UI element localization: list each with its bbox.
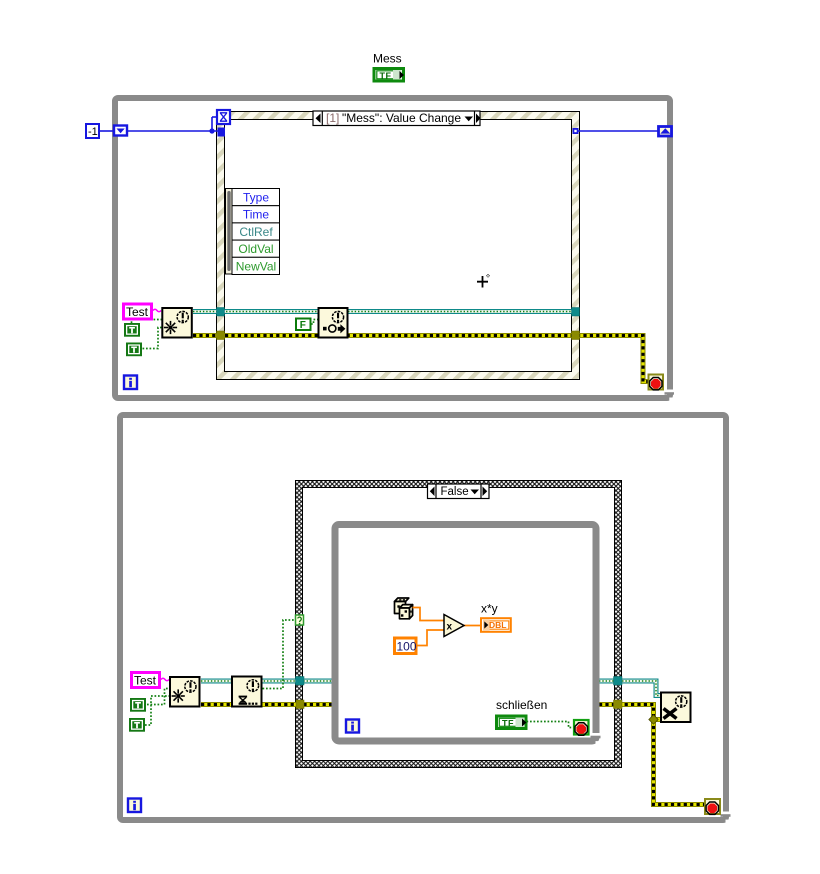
numeric constant 100 <box>395 638 417 654</box>
close ref node U5 (X + !) <box>661 693 691 723</box>
string constant Test (bottom) <box>132 673 160 688</box>
error wire (node1 to stop terminal) <box>193 336 649 382</box>
svg-text:[1]: [1] <box>326 111 339 125</box>
olive tunnel left on case border <box>296 700 304 709</box>
svg-text:"Mess": Value Change: "Mess": Value Change <box>342 111 461 125</box>
schliessen TF boolean terminal <box>497 716 527 729</box>
event data node <box>226 189 280 275</box>
boolean constant T1 (bottom loop) <box>130 698 146 712</box>
olive tunnel left on event border <box>217 331 225 340</box>
green dotted wire F to node2 <box>311 320 318 325</box>
green dotted wire from T1 (under Test) to node1 <box>132 320 162 324</box>
wait node U4 (hourglass + !) <box>232 677 262 707</box>
svg-text:100: 100 <box>397 640 417 654</box>
boolean constant T2 (bottom loop) <box>129 718 145 732</box>
shift register left (down arrow) <box>114 126 127 136</box>
while loop border (top) <box>115 98 674 401</box>
boolean constant T1 (top loop) <box>124 323 140 337</box>
error wire junction diamond <box>649 715 658 724</box>
small blue tunnel on event right border <box>573 128 579 134</box>
green dotted wire T2 to node1 (bottom) <box>145 696 169 725</box>
case selector label False <box>428 484 490 499</box>
svg-text:x: x <box>447 622 453 633</box>
svg-text:CtlRef: CtlRef <box>239 225 273 239</box>
svg-text:Time: Time <box>243 208 270 222</box>
Mess TF boolean terminal <box>374 69 404 82</box>
svg-text:TF: TF <box>380 71 392 81</box>
case structure border <box>296 481 622 768</box>
olive tunnel right on event border <box>572 331 580 340</box>
open ref node U3 (asterisk + !) bottom <box>170 677 200 707</box>
loop condition stop terminal (bottom loop) <box>705 799 720 814</box>
iteration terminal i (bottom loop) <box>128 799 141 813</box>
wire -1 to shift register <box>100 130 114 132</box>
iteration terminal i (top loop) <box>124 376 137 390</box>
teal tunnel left on event border <box>217 308 225 317</box>
pink string wire (bottom) <box>161 678 169 681</box>
wire teal hidden span under inner loop <box>333 681 599 705</box>
svg-text:DBL: DBL <box>489 620 506 630</box>
orange wire 100 to multiply <box>418 630 445 646</box>
svg-text:Test: Test <box>126 305 149 319</box>
numeric constant -1 <box>86 124 99 138</box>
orange wire dice to multiply <box>413 608 445 621</box>
event selector label <box>313 111 481 126</box>
green dotted wire T1 to node1 (bottom) <box>147 689 169 705</box>
DBL indicator x*y <box>481 618 511 632</box>
error wire (node1 through case to close node and stop) <box>201 705 705 805</box>
svg-text:Test: Test <box>134 674 157 688</box>
teal tunnel right on event border <box>572 308 580 317</box>
teal tunnel left on case border <box>296 677 305 686</box>
run method node U2 (!) <box>319 308 348 338</box>
svg-text:OldVal: OldVal <box>238 242 273 256</box>
loop condition stop terminal (top loop) <box>649 375 664 390</box>
svg-text:Mess: Mess <box>373 52 402 66</box>
teal refnum wire (node1 to right tunnel) <box>193 309 572 314</box>
green dotted wire TF to inner stop <box>527 722 574 728</box>
event timeout terminal (hourglass) <box>217 110 230 124</box>
while loop border (bottom) <box>120 415 731 823</box>
wire shift register to timeout <box>127 117 218 134</box>
string constant Test (top) <box>124 304 152 319</box>
F boolean constant <box>296 319 311 332</box>
svg-text:x*y: x*y <box>481 602 498 616</box>
inner loop stop terminal <box>574 720 589 735</box>
case selector terminal ? <box>296 615 304 625</box>
boolean constant T2 (top loop) <box>126 343 142 357</box>
open ref node U1 (asterisk + !) <box>162 308 192 338</box>
green dotted wire T2 to node1 <box>143 328 162 349</box>
orange wire multiply to indicator <box>464 625 482 627</box>
teal tunnel right on case border <box>614 677 623 686</box>
inner while loop <box>335 521 601 745</box>
svg-text:-1: -1 <box>88 126 98 138</box>
blue tunnel below timeout <box>218 128 226 137</box>
shift register right (up arrow) <box>659 127 672 137</box>
iteration terminal i (inner loop) <box>346 720 359 733</box>
multiply node <box>444 615 464 637</box>
svg-text:Type: Type <box>243 191 269 205</box>
svg-text:False: False <box>441 486 469 498</box>
svg-text:schließen: schließen <box>496 698 547 712</box>
blue wire tunnel to right shift register <box>579 130 659 132</box>
svg-text:TF: TF <box>502 718 514 728</box>
event structure border <box>217 112 580 380</box>
svg-text:NewVal: NewVal <box>236 259 276 273</box>
teal refnum wire (node1 through case to X node) <box>201 681 660 696</box>
random number dice icon <box>395 598 413 619</box>
mouse cursor crosshair <box>477 274 490 288</box>
svg-text:F: F <box>300 320 306 331</box>
green dotted wire node2 to case selector ? <box>263 620 296 689</box>
olive tunnel right on case border <box>614 700 623 709</box>
pink string wire <box>153 309 161 312</box>
